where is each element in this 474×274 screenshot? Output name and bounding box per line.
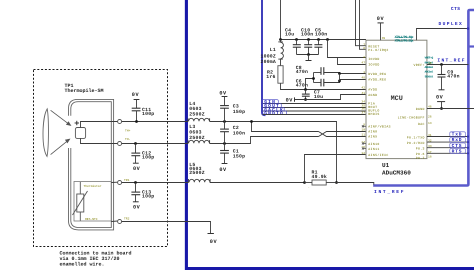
svg-text:100p: 100p bbox=[142, 111, 154, 117]
svg-text:INT_REF: INT_REF bbox=[437, 57, 465, 63]
wire thermistor to pin3 bbox=[111, 181, 117, 183]
svg-text:RTS: RTS bbox=[452, 148, 463, 154]
capacitor C9 bbox=[438, 63, 460, 90]
GOUT terminal bbox=[262, 103, 366, 109]
caps common ground bbox=[297, 53, 319, 60]
svg-text:0V: 0V bbox=[219, 91, 227, 97]
svg-text:INT_REF: INT_REF bbox=[374, 189, 405, 195]
bus right with INT_REF segment bbox=[373, 10, 474, 186]
svg-text:48: 48 bbox=[361, 76, 365, 79]
wire IEXC vertical bbox=[305, 155, 367, 183]
svg-text:Thermopile-SM: Thermopile-SM bbox=[65, 88, 104, 94]
svg-text:ADC1ml: ADC1ml bbox=[425, 70, 434, 74]
wire P1.0 from top bbox=[360, 0, 367, 49]
svg-text:A: A bbox=[363, 56, 365, 59]
resistor R1 bbox=[303, 169, 338, 185]
svg-text:TR2: TR2 bbox=[124, 218, 130, 221]
wire C thermistor net bbox=[122, 182, 189, 184]
wire AVDD bbox=[281, 83, 367, 89]
INT_REF wire right bbox=[427, 57, 469, 64]
svg-text:TR1: TR1 bbox=[124, 179, 130, 182]
svg-text:L3: L3 bbox=[189, 124, 195, 130]
svg-text:47: 47 bbox=[361, 61, 365, 64]
thermopile can outer bbox=[69, 99, 114, 230]
wire B sensor minus net bbox=[122, 143, 189, 145]
MCU left pin names bbox=[368, 44, 391, 157]
lens bbox=[43, 109, 48, 157]
svg-text:2500Z: 2500Z bbox=[189, 170, 205, 176]
svg-text:U1: U1 bbox=[382, 162, 390, 169]
svg-text:10: 10 bbox=[361, 128, 365, 131]
svg-text:470n: 470n bbox=[447, 74, 459, 80]
capacitor C1 bbox=[219, 144, 245, 174]
svg-text:18: 18 bbox=[428, 155, 432, 158]
svg-text:1r6: 1r6 bbox=[266, 74, 275, 80]
MCU right pin numbers bbox=[428, 62, 432, 159]
capacitor C2 bbox=[220, 122, 245, 144]
capacitor C8 bbox=[296, 65, 366, 75]
svg-text:C3: C3 bbox=[233, 104, 239, 110]
bus stub right bbox=[469, 45, 474, 47]
svg-text:10u: 10u bbox=[314, 94, 323, 100]
ground 0V bottom bbox=[208, 234, 218, 246]
svg-text:L4: L4 bbox=[189, 101, 195, 107]
svg-text:TxD: TxD bbox=[452, 132, 463, 138]
capacitor C11 bbox=[132, 92, 155, 123]
UART wires and labels bbox=[427, 137, 468, 154]
svg-text:AIN11: AIN11 bbox=[368, 147, 379, 151]
svg-text:P0.2/RXD: P0.2/RXD bbox=[407, 141, 425, 145]
svg-text:8: 8 bbox=[363, 47, 365, 50]
svg-text:32: 32 bbox=[428, 140, 432, 143]
capacitor C10 bbox=[301, 28, 313, 55]
svg-text:DAC: DAC bbox=[418, 122, 425, 126]
svg-text:0V: 0V bbox=[132, 92, 140, 98]
0V power pin top bbox=[377, 16, 386, 40]
capacitor C4 bbox=[285, 28, 301, 55]
wire A after bead to MCU area bbox=[210, 122, 337, 183]
svg-text:TH+: TH+ bbox=[125, 129, 131, 132]
ferrite bead L5 bbox=[189, 179, 211, 183]
wire C to R1 bbox=[210, 182, 305, 184]
svg-text:31: 31 bbox=[428, 134, 432, 137]
svg-text:470n: 470n bbox=[296, 69, 308, 75]
svg-text:150p: 150p bbox=[233, 109, 245, 115]
GNDIO terminal bbox=[262, 110, 366, 116]
svg-text:GNDIO: GNDIO bbox=[264, 110, 284, 116]
svg-text:0V: 0V bbox=[133, 204, 141, 210]
svg-text:0603: 0603 bbox=[189, 130, 201, 136]
svg-text:0V: 0V bbox=[377, 16, 385, 22]
svg-text:enamelled wire.: enamelled wire. bbox=[60, 261, 105, 267]
sensing element square bbox=[75, 128, 85, 139]
capacitor C6 bbox=[296, 74, 366, 89]
R1 pin marks bbox=[308, 186, 333, 189]
ferrite bead L3 bbox=[188, 140, 210, 143]
svg-text:L1: L1 bbox=[270, 47, 276, 53]
DUPLEX pin wire bbox=[417, 29, 469, 41]
dashed enclosure sensor bbox=[34, 70, 168, 247]
svg-text:IOVDD: IOVDD bbox=[368, 62, 379, 66]
svg-text:100n: 100n bbox=[315, 32, 327, 38]
unconnected stubs left bbox=[362, 125, 366, 149]
svg-text:1: 1 bbox=[363, 71, 365, 74]
MCU left pin numbers bbox=[361, 43, 365, 155]
svg-text:10u: 10u bbox=[285, 32, 294, 38]
wire case to pin4 bbox=[111, 220, 117, 223]
svg-text:37: 37 bbox=[361, 111, 365, 114]
svg-text:AGND: AGND bbox=[368, 93, 377, 97]
ray arrow 2 bbox=[51, 139, 70, 154]
GACLK terminal bbox=[262, 107, 366, 113]
svg-text:AVDD: AVDD bbox=[368, 87, 377, 91]
svg-text:150p: 150p bbox=[233, 154, 245, 160]
svg-text:MCU: MCU bbox=[391, 95, 403, 103]
svg-text:470n: 470n bbox=[296, 82, 308, 88]
hidden pins teal top bbox=[395, 35, 414, 44]
svg-text:AIN5/IEXC: AIN5/IEXC bbox=[368, 153, 388, 157]
inductor L1 bbox=[278, 40, 283, 60]
svg-text:41: 41 bbox=[361, 92, 365, 95]
svg-text:0V: 0V bbox=[286, 97, 294, 103]
svg-text:DUPLEX: DUPLEX bbox=[439, 21, 464, 27]
svg-text:VREF-Q: VREF-Q bbox=[425, 57, 434, 60]
svg-text:C1: C1 bbox=[233, 148, 239, 154]
svg-text:AIN9: AIN9 bbox=[368, 135, 377, 139]
svg-text:C2: C2 bbox=[233, 125, 239, 131]
svg-text:CTS: CTS bbox=[451, 6, 461, 12]
svg-text:P0.1/TXD: P0.1/TXD bbox=[407, 135, 425, 139]
rail feed vertical from top bbox=[280, 0, 282, 40]
capacitor C13 bbox=[131, 181, 154, 210]
thermistor sub-box bbox=[74, 182, 111, 222]
svg-text:26: 26 bbox=[428, 115, 432, 118]
svg-text:P0.3: P0.3 bbox=[416, 147, 425, 151]
label CTS bbox=[450, 143, 466, 149]
capacitor C7 bbox=[302, 88, 323, 101]
0V line to AGND bbox=[286, 95, 366, 104]
wire A branch jog bbox=[252, 122, 319, 132]
svg-text:1000Z: 1000Z bbox=[261, 54, 277, 60]
svg-text:39: 39 bbox=[382, 37, 386, 40]
hidden pins teal right bbox=[425, 57, 434, 79]
pin circle 4 bbox=[118, 220, 122, 224]
pin circle 1 bbox=[118, 120, 122, 124]
svg-text:DGND: DGND bbox=[416, 107, 425, 111]
svg-text:IEXC1l: IEXC1l bbox=[425, 74, 434, 78]
svg-text:46: 46 bbox=[428, 106, 432, 109]
svg-text:0V: 0V bbox=[210, 239, 218, 245]
svg-text:42: 42 bbox=[361, 86, 365, 89]
pin circle 2 bbox=[118, 142, 122, 146]
svg-text:34: 34 bbox=[361, 101, 365, 104]
pin circle 3 bbox=[118, 181, 122, 185]
MCU right pin names bbox=[398, 63, 425, 160]
bus vertical left bbox=[262, 0, 266, 115]
capacitor C3 bbox=[219, 91, 245, 122]
label RXD bbox=[450, 137, 466, 143]
svg-text:Thermistor: Thermistor bbox=[84, 184, 102, 188]
svg-text:33: 33 bbox=[428, 145, 432, 148]
svg-text:BHDIS: BHDIS bbox=[368, 112, 379, 116]
label RTS bbox=[450, 148, 466, 154]
wire B after bead bbox=[210, 137, 319, 144]
wire element bottom to pin2 bbox=[81, 138, 118, 143]
label TXD bbox=[450, 132, 466, 138]
svg-text:LINE-CHGBUFF: LINE-CHGBUFF bbox=[398, 116, 425, 120]
svg-text:CTS: CTS bbox=[452, 143, 463, 149]
svg-text:DVDD_REG: DVDD_REG bbox=[368, 72, 386, 76]
capacitor C5 bbox=[314, 28, 327, 55]
junction dots mid bbox=[223, 120, 226, 123]
svg-text:AINF/VBIAS: AINF/VBIAS bbox=[368, 124, 391, 128]
bus junction dots bbox=[467, 135, 469, 154]
wire IOVDD branch bbox=[326, 38, 329, 41]
svg-text:ADuCM360: ADuCM360 bbox=[382, 170, 411, 177]
svg-text:AIN8: AIN8 bbox=[368, 129, 377, 133]
svg-text:ADC0ml: ADC0ml bbox=[425, 65, 434, 69]
svg-text:RxD: RxD bbox=[452, 137, 463, 143]
svg-text:P1.0/IRQ2: P1.0/IRQ2 bbox=[368, 48, 388, 52]
svg-text:17: 17 bbox=[428, 151, 432, 154]
svg-text:0V: 0V bbox=[219, 167, 227, 173]
wire D case ground bbox=[122, 222, 211, 234]
crossover X bbox=[319, 132, 367, 137]
C8 C6 left tie bbox=[306, 73, 314, 90]
svg-text:IOVDD: IOVDD bbox=[368, 57, 379, 61]
svg-text:13: 13 bbox=[428, 122, 432, 125]
thermistor RT bbox=[73, 182, 88, 221]
svg-text:0603: 0603 bbox=[189, 106, 201, 112]
svg-text:11: 11 bbox=[361, 134, 365, 137]
wire RESET from top bbox=[356, 0, 367, 46]
svg-text:P0.7: P0.7 bbox=[416, 156, 425, 160]
sheet border bbox=[186, 0, 474, 269]
capacitor C12 bbox=[131, 142, 154, 172]
svg-text:100n: 100n bbox=[233, 130, 245, 136]
svg-text:AVDD_REG: AVDD_REG bbox=[368, 77, 386, 81]
svg-text:0V: 0V bbox=[133, 166, 141, 172]
top rail supply bbox=[281, 39, 367, 41]
svg-text:TH-: TH- bbox=[125, 138, 131, 141]
svg-text:200mA: 200mA bbox=[261, 59, 277, 65]
svg-text:16: 16 bbox=[428, 62, 432, 65]
GIN terminal bbox=[262, 99, 366, 105]
plus mark bbox=[75, 121, 79, 125]
ray arrow 1 bbox=[51, 110, 71, 125]
resistor R2 bbox=[266, 59, 283, 83]
svg-text:100n: 100n bbox=[301, 32, 313, 38]
ferrite bead L4 bbox=[188, 118, 210, 121]
svg-text:2500Z: 2500Z bbox=[189, 135, 205, 141]
svg-text:XTAL2/P0.5Qx: XTAL2/P0.5Qx bbox=[395, 39, 414, 44]
svg-text:2500Z: 2500Z bbox=[189, 112, 205, 118]
0V pin wire right mid bbox=[427, 94, 474, 110]
svg-text:100p: 100p bbox=[142, 194, 154, 200]
wire A sensor plus net bbox=[122, 121, 189, 123]
svg-text:VREF+: VREF+ bbox=[413, 63, 424, 67]
svg-text:AIN10: AIN10 bbox=[368, 142, 379, 146]
svg-text:0V: 0V bbox=[436, 94, 444, 100]
svg-text:RES-NTC: RES-NTC bbox=[85, 218, 98, 221]
svg-text:49.9k: 49.9k bbox=[312, 174, 328, 180]
svg-text:100p: 100p bbox=[142, 155, 154, 161]
wire element top to pin1 bbox=[81, 122, 118, 128]
MCU box U1 bbox=[366, 40, 427, 158]
wire R1 right to bus entry bbox=[337, 183, 374, 185]
thermopile can inner bbox=[71, 102, 112, 228]
svg-text:12: 12 bbox=[361, 152, 365, 155]
svg-text:36: 36 bbox=[361, 108, 365, 111]
